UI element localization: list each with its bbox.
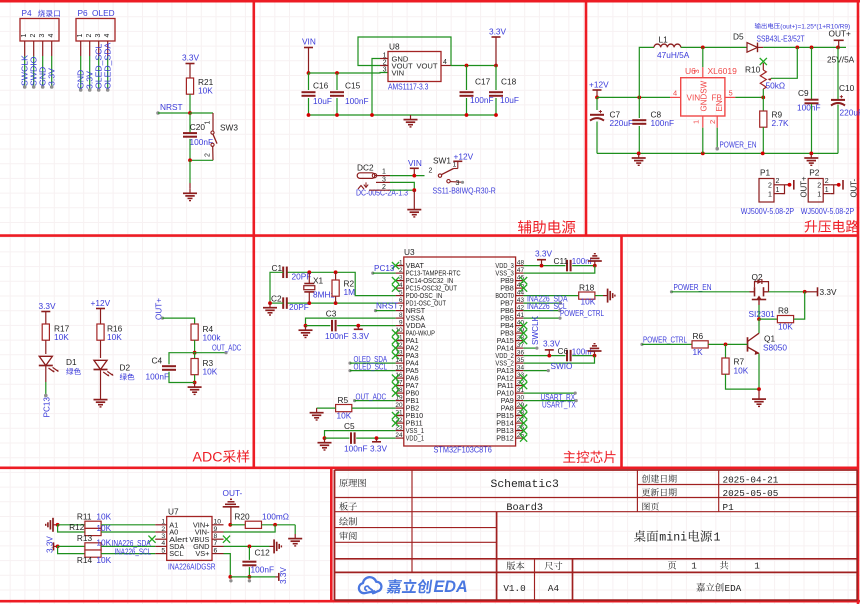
svg-text:R12: R12: [69, 522, 85, 532]
wire C12 bottom: [248, 567, 250, 577]
connector P4: [20, 19, 59, 42]
net flag OUT- (U7): [223, 488, 243, 525]
no-connect X U3 left pin 17: [392, 382, 399, 389]
svg-text:INA226_SCL: INA226_SCL: [115, 547, 152, 556]
svg-text:C12: C12: [255, 548, 271, 558]
connector P1: [759, 168, 794, 203]
ground (C3): [299, 326, 313, 338]
svg-text:Schematic3: Schematic3: [491, 479, 560, 491]
svg-text:10: 10: [214, 519, 222, 526]
wire R11 to pin1: [101, 524, 155, 526]
wire R16 to D2: [100, 340, 102, 358]
svg-text:R18: R18: [579, 283, 595, 293]
svg-text:2: 2: [429, 168, 433, 175]
svg-text:PB12: PB12: [496, 434, 514, 443]
net port USART_TX: [575, 399, 578, 402]
wire POWER_CTRL to R6: [642, 343, 692, 345]
sheet top border: [0, 0, 860, 3]
resistor R7: [722, 357, 749, 376]
svg-text:Board3: Board3: [506, 502, 543, 514]
svg-text:WJ500V-5.08-2P: WJ500V-5.08-2P: [801, 207, 854, 216]
junction wiper return: [795, 46, 799, 50]
svg-text:2: 2: [86, 34, 93, 38]
capacitor C9: [797, 88, 821, 113]
svg-text:14: 14: [395, 357, 403, 364]
wire P4 pin 2: [32, 41, 36, 89]
svg-text:3: 3: [161, 533, 165, 540]
power flag 3.3V (VDD_3): [535, 248, 553, 265]
net port dots: [229, 579, 251, 582]
svg-text:R13: R13: [77, 533, 93, 543]
value 绿色 (D1): [66, 368, 81, 375]
no-connect X U3 left pin 10: [392, 330, 399, 337]
junction C20/SW3: [188, 158, 192, 162]
wire R8 to 3.3V node: [794, 292, 805, 319]
svg-text:R10: R10: [745, 65, 761, 75]
wire P4 pin 1: [23, 41, 27, 89]
svg-text:1M: 1M: [344, 287, 356, 297]
ground (oscillator): [263, 303, 277, 315]
junction VIN- node: [273, 523, 277, 527]
svg-text:4: 4: [48, 34, 55, 38]
no-connect X U3 right pin 33: [520, 375, 527, 382]
svg-text:U7: U7: [168, 507, 179, 517]
net port OLED_SDA: [348, 362, 351, 365]
capacitor C16: [302, 81, 332, 107]
svg-text:24: 24: [395, 432, 403, 439]
svg-text:5: 5: [161, 547, 165, 554]
svg-text:30: 30: [517, 394, 525, 401]
wire osc bottom rail: [288, 302, 396, 304]
svg-text:10K: 10K: [107, 332, 122, 342]
svg-text:100nF: 100nF: [651, 118, 675, 128]
net port SWIO (U3): [547, 369, 550, 372]
capacitor C2: [271, 294, 309, 313]
svg-text:D2: D2: [120, 363, 131, 373]
junction base node: [724, 343, 728, 347]
junction 3.3V/C18: [494, 64, 498, 68]
wire BOOT0 to R18: [523, 295, 578, 297]
wire Q1 collector: [758, 332, 760, 334]
power flag OUT+: [829, 29, 852, 48]
svg-text:3: 3: [692, 69, 701, 73]
wire VSS_3 up: [523, 266, 594, 274]
junction gnd R9: [761, 152, 765, 156]
wire gnd to R11: [58, 524, 85, 526]
ground (boost right): [804, 153, 818, 165]
current monitor U7 INA226AIDGSR: [167, 507, 212, 561]
net port SWCLK (U3): [535, 347, 538, 350]
power flag 3.3V (Q2): [805, 287, 837, 297]
junction VSSA rail: [304, 324, 308, 328]
wire SWIO: [523, 370, 548, 372]
svg-text:C17: C17: [475, 77, 491, 87]
resistor R4: [191, 324, 221, 343]
svg-text:4: 4: [161, 540, 165, 547]
junction C12 rail: [248, 575, 252, 579]
resistor R20 shunt: [234, 511, 289, 528]
junction X1 top: [307, 270, 311, 274]
svg-text:OUT_ADC: OUT_ADC: [356, 392, 387, 401]
svg-text:R14: R14: [77, 555, 93, 565]
power flag 3.3V (VDD_2): [543, 339, 561, 356]
no-connect X U3 left pin 4: [392, 285, 399, 292]
wire D1 to PC13 green: [45, 382, 47, 396]
logo JLC EDA text: [386, 578, 467, 596]
svg-text:220uF: 220uF: [840, 108, 860, 118]
power flag 3.3V (VS+): [276, 573, 279, 581]
svg-text:C9: C9: [798, 88, 809, 98]
capacitor C4: [146, 356, 177, 382]
svg-text:POWER_EN: POWER_EN: [674, 283, 712, 292]
resistor R12: [69, 522, 112, 535]
no-connect X U3 left pin 3: [392, 277, 399, 284]
P4 designator and name: [22, 8, 60, 18]
wire aux ground rail: [309, 114, 497, 116]
junction R3 gnd node: [193, 381, 197, 385]
potentiometer R10: [745, 65, 785, 91]
junction VIN+ node: [228, 523, 232, 527]
junction X1 bottom: [307, 301, 311, 305]
wire PC13 to pin2: [373, 272, 396, 274]
svg-text:OLED_SDA: OLED_SDA: [103, 42, 113, 89]
svg-text:10K: 10K: [96, 512, 111, 522]
wire R4 to OUT_ADC node: [194, 340, 196, 353]
power flag 3.3V (ADC): [39, 301, 57, 324]
wire C17 top lead: [466, 66, 468, 91]
section title 主控芯片: [563, 451, 615, 464]
svg-text:3.3V: 3.3V: [370, 443, 388, 453]
wire NRST stub: [158, 112, 190, 114]
svg-text:SI2301: SI2301: [749, 309, 776, 319]
svg-text:SW1: SW1: [433, 156, 451, 166]
svg-text:R5: R5: [338, 395, 349, 405]
capacitor C3: [325, 309, 349, 342]
wire VIN- sense: [224, 525, 276, 532]
wire C9 bottom: [811, 104, 813, 153]
svg-text:SCL: SCL: [169, 549, 183, 558]
section title 升压电路: [805, 220, 859, 233]
svg-text:6: 6: [399, 297, 403, 304]
U7 pins: [155, 519, 223, 559]
resistor R21: [186, 77, 213, 96]
wire U8 VOUT loop to pin4: [358, 37, 451, 66]
wire P6 pin 3: [97, 41, 101, 92]
svg-text:U8: U8: [389, 42, 400, 52]
wire Q2 right to 3.3V node: [769, 291, 805, 293]
net port POWER_EN: [715, 147, 719, 151]
power flag VIN: [302, 37, 316, 74]
wire C8 top: [638, 97, 640, 118]
svg-text:VIN: VIN: [302, 37, 316, 47]
svg-text:P6: P6: [78, 8, 89, 18]
svg-text:100mΩ: 100mΩ: [262, 511, 289, 521]
P6 designator and name: [78, 8, 115, 18]
section title 辅助电源: [518, 220, 575, 233]
svg-text:C3: C3: [326, 309, 337, 319]
junction VIN/C16: [307, 71, 311, 75]
wire OLED_SDA: [350, 362, 396, 364]
wire R6 to base: [708, 343, 747, 345]
power flag 3.3V (VDD_1): [370, 438, 388, 453]
resistor R3: [191, 358, 218, 377]
divider vertical x=586 (row 1): [585, 1, 588, 236]
no-connect X U7 Alert: [148, 536, 155, 543]
wire INA226_SCL: [523, 310, 559, 312]
svg-text:STM32F103C8T6: STM32F103C8T6: [434, 445, 493, 455]
wire VSS_2 up: [523, 356, 594, 364]
svg-text:7: 7: [214, 540, 218, 547]
ground (R11/R12) left: [46, 518, 58, 532]
wire OLED_SCL: [350, 370, 396, 372]
svg-text:PC13: PC13: [43, 397, 52, 418]
wire POWER_CTRL (U3): [523, 317, 560, 319]
svg-text:8: 8: [214, 533, 218, 540]
no-connect X U3 left pin 16: [392, 375, 399, 382]
svg-text:R6: R6: [693, 331, 704, 341]
wire C12 top: [248, 546, 250, 560]
divider horizontal y=468: [0, 466, 858, 469]
divider vertical x=331 (row 3): [330, 468, 333, 601]
svg-text:SWIO: SWIO: [551, 362, 573, 371]
U3 left pins 1-24: [395, 259, 460, 442]
svg-text:100nF: 100nF: [146, 371, 170, 381]
junction NRST/R21/C20/SW3: [188, 111, 192, 115]
junction R13 3.3V: [56, 545, 60, 549]
ground (reset): [183, 183, 197, 201]
junction gnd osc: [268, 301, 272, 305]
resistor R6: [692, 331, 708, 357]
no-connect X U3 right pin 27: [520, 420, 527, 427]
svg-text:VOUT: VOUT: [416, 61, 437, 70]
ground (C5): [318, 438, 332, 450]
wire OUT_ADC stub: [195, 352, 226, 354]
svg-text:C15: C15: [345, 81, 361, 91]
junction 3.3V VDD_2: [547, 354, 551, 358]
svg-text:3.3V: 3.3V: [47, 68, 57, 86]
wire INA226_SDA: [523, 302, 560, 304]
wire R21 to NRST node: [189, 94, 191, 113]
title block row version/size/page: [503, 561, 760, 595]
resistor R5: [336, 395, 352, 420]
net port OUT+ (ADC): [161, 317, 164, 320]
svg-text:USART_TX: USART_TX: [542, 401, 576, 410]
svg-text:1: 1: [204, 121, 211, 125]
ground (C11) inverted: [588, 254, 602, 266]
wire gate node to Q1: [758, 319, 760, 333]
no-connect X U3 left pin 1: [392, 262, 399, 269]
svg-text:20PF: 20PF: [292, 272, 312, 282]
wire SW3 bottom to node: [190, 159, 213, 161]
svg-text:4: 4: [104, 34, 111, 38]
svg-text:41: 41: [517, 312, 525, 319]
wire C15 bottom lead: [336, 98, 338, 115]
wire R20 to gnd: [294, 525, 296, 534]
wire rail to 3.3V flag: [230, 576, 275, 578]
svg-text:1: 1: [691, 561, 697, 572]
switch SW1: [429, 156, 465, 187]
svg-text:15: 15: [395, 364, 403, 371]
resistor R17: [42, 324, 69, 343]
svg-text:1: 1: [161, 519, 165, 526]
svg-text:+12V: +12V: [91, 298, 111, 308]
svg-text:2: 2: [161, 526, 165, 533]
wire C10 column: [837, 47, 839, 99]
wire DC2-2 to ground: [390, 189, 414, 191]
capacitor C17: [460, 77, 494, 106]
boost converter U6 XL6019: [670, 66, 737, 128]
wire POWER_EN to Q2: [672, 291, 750, 293]
wire C17 bottom lead: [466, 98, 468, 115]
no-connect X U3 right pin 28: [520, 412, 527, 419]
wire R14 to pin5: [101, 553, 155, 555]
wire P6 pin 4: [106, 41, 110, 92]
ground (jack): [407, 205, 421, 217]
svg-text:10K: 10K: [198, 86, 213, 96]
svg-text:X1: X1: [313, 276, 324, 286]
divider vertical x=254 (rows 1-2): [253, 1, 256, 468]
svg-text:P1: P1: [760, 168, 771, 178]
svg-text:48: 48: [517, 259, 525, 266]
svg-text:1: 1: [768, 191, 772, 198]
svg-text:1: 1: [399, 259, 403, 266]
junction OUT_ADC: [193, 351, 197, 355]
svg-text:10uF: 10uF: [313, 96, 332, 106]
pin stub DC2-2: [369, 189, 390, 191]
svg-text:XL6019: XL6019: [708, 66, 738, 76]
svg-text:1: 1: [817, 191, 821, 198]
svg-text:3.3V: 3.3V: [535, 248, 553, 258]
wire VDD_2 rail: [523, 355, 565, 357]
wire R9 to gnd rail: [762, 127, 764, 153]
wire OUT+ to R4: [163, 318, 195, 324]
svg-text:D5: D5: [733, 32, 744, 42]
wire node to C20: [189, 113, 191, 133]
junction gnd rail U8gnd: [370, 113, 374, 117]
junction gnd U6 pin1: [701, 152, 705, 156]
wire base node to R7: [725, 344, 727, 358]
MCU U3 STM32F103C8T6 body: [404, 247, 516, 446]
U3 right pins 48-25: [495, 259, 524, 442]
junction +12V rail: [595, 96, 599, 100]
svg-text:2: 2: [708, 120, 717, 124]
wire D1 to PC13: [45, 366, 47, 383]
wire node to R3: [194, 353, 196, 359]
no-connect X U3 left pin 13: [392, 352, 399, 359]
wire +12V rail: [597, 96, 670, 98]
svg-text:SS11-B8IWQ-R30-R: SS11-B8IWQ-R30-R: [433, 186, 496, 196]
wire node to ground (reset): [189, 160, 191, 183]
divider vertical x=621 (row 2): [620, 236, 623, 468]
svg-text:1: 1: [825, 187, 829, 194]
LED D2: [94, 360, 131, 376]
svg-text:POWER_EN: POWER_EN: [720, 140, 757, 150]
net port OLED_SCL: [348, 369, 351, 372]
no-connect X U3 right pin 38: [520, 337, 527, 344]
svg-text:19: 19: [395, 394, 403, 401]
svg-text:S8050: S8050: [763, 343, 787, 353]
svg-text:20PF: 20PF: [289, 302, 309, 312]
capacitor C12: [242, 548, 274, 575]
wire VSSA to rail: [306, 318, 396, 326]
junction R2 bottom: [334, 301, 338, 305]
svg-text:OUT+: OUT+: [800, 176, 809, 197]
svg-text:1: 1: [21, 34, 28, 38]
svg-text:1: 1: [382, 168, 386, 175]
svg-text:A4: A4: [548, 583, 560, 594]
capacitor C1: [272, 263, 312, 282]
junction gate node: [757, 317, 761, 321]
logo JLC EDA cloud icon: [359, 577, 382, 593]
svg-text:10K: 10K: [203, 367, 218, 377]
net port PC13: [44, 394, 48, 398]
wire U8 GND to ground rail: [372, 59, 380, 116]
wire C15 top lead: [336, 73, 338, 90]
svg-text:VS+: VS+: [195, 549, 209, 558]
wire +12V down C7: [596, 97, 598, 110]
wire DC2-3 down: [390, 182, 414, 190]
svg-text:3: 3: [399, 274, 403, 281]
ground (aux rail): [404, 115, 418, 127]
svg-text:DC-005C-2A-1.3: DC-005C-2A-1.3: [356, 188, 408, 198]
svg-text:C1: C1: [272, 263, 283, 273]
wire emitter to gnd: [758, 389, 760, 394]
capacitor C20: [183, 122, 213, 147]
resistor R9: [760, 110, 789, 129]
wire osc top rail: [288, 272, 396, 295]
svg-text:100nF: 100nF: [797, 103, 821, 113]
pin stub DC2-3: [376, 181, 390, 183]
svg-text:4: 4: [399, 282, 403, 289]
svg-text:OUT-: OUT-: [850, 178, 859, 197]
svg-text:EDA: EDA: [725, 583, 742, 594]
svg-text:C4: C4: [152, 356, 163, 366]
svg-text:42: 42: [517, 304, 525, 311]
wire R5 right to pin20: [352, 407, 396, 409]
ground (D2): [94, 395, 108, 407]
no-connect X U3 right pin 40: [520, 322, 527, 329]
svg-text:DC2: DC2: [357, 163, 374, 173]
junction FB node: [761, 96, 765, 100]
net port USART_RX: [574, 392, 577, 395]
svg-text:1: 1: [453, 162, 457, 169]
transistor Q2 SI2301: [750, 272, 769, 305]
svg-text:PC13: PC13: [374, 264, 395, 273]
junction gnd rail C17: [465, 113, 469, 117]
svg-text:10uF: 10uF: [500, 95, 519, 105]
sheet right border: [857, 0, 860, 604]
svg-text:C10: C10: [839, 83, 855, 93]
junction gnd rail C18: [494, 113, 498, 117]
svg-text:3.3V: 3.3V: [489, 27, 507, 37]
svg-text:WJ500V-5.08-2P: WJ500V-5.08-2P: [741, 207, 794, 216]
svg-text:C2: C2: [271, 294, 282, 304]
capacitor C11: [554, 256, 595, 271]
no-connect X U3 left pin 12: [392, 345, 399, 352]
wire C16 bottom lead: [308, 98, 310, 115]
svg-text:23: 23: [395, 424, 403, 431]
power flag 3.3V (reset): [182, 53, 200, 79]
wire L1 to D5: [681, 46, 747, 48]
svg-text:2: 2: [204, 153, 211, 157]
svg-text:SWCLK: SWCLK: [531, 315, 540, 345]
svg-text:2: 2: [825, 178, 829, 185]
junction VDDA 3.3V: [356, 324, 360, 328]
power flag 3.3V (aux out): [489, 27, 507, 66]
wire USART_TX: [523, 400, 576, 402]
junction VIN jack: [412, 174, 416, 178]
svg-text:20: 20: [395, 402, 403, 409]
